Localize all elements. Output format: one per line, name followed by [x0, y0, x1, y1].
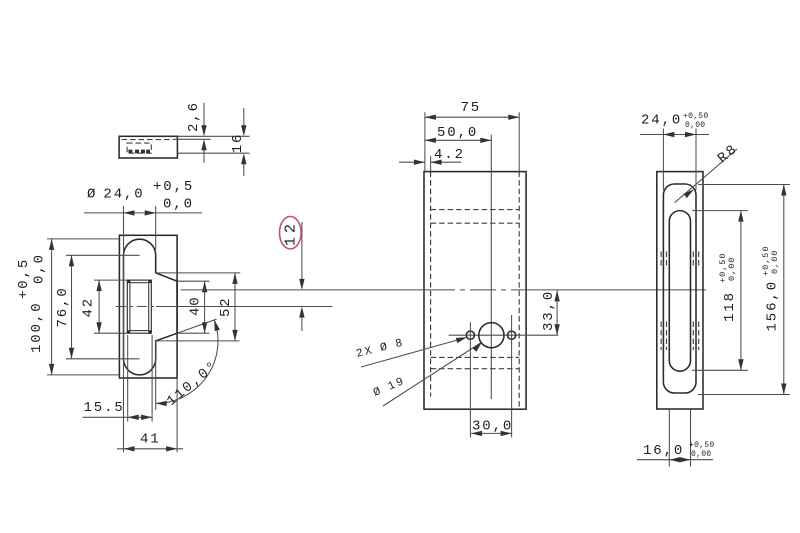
dimension 41 arrows: [124, 446, 135, 451]
dimension 75 extension left: [424, 112, 426, 171]
dimension 75 dim line: [425, 116, 519, 118]
dimension 100,0 extension top: [47, 238, 119, 240]
svg-text:16,0: 16,0: [643, 443, 684, 459]
angle 110 vertical extension line: [155, 341, 157, 410]
dimension 118 arrows: [738, 211, 743, 222]
small view hidden square 3: [141, 150, 145, 154]
svg-text:24,0: 24,0: [641, 113, 682, 129]
svg-text:50,0: 50,0: [437, 125, 478, 141]
dimension 30,0 extension left: [469, 322, 471, 438]
middle plate outline: [424, 172, 526, 410]
svg-text:12: 12: [283, 220, 300, 246]
leader 2X Ø8 arrow: [456, 337, 467, 343]
small view top surface extension line: [177, 135, 249, 137]
dimension 24,0 arrows: [663, 132, 674, 137]
small view hidden square 2: [135, 150, 139, 154]
dimension 42 extension top: [94, 279, 127, 281]
dimension Ø24 dim line: [84, 212, 202, 214]
dimension 16 leader line: [243, 108, 245, 132]
dimension 40 extension top: [177, 280, 209, 282]
dimension 52 extension bottom: [156, 340, 240, 342]
dimension 16 lower extension line: [177, 152, 249, 154]
dimension 4.2 dim line left: [399, 161, 425, 163]
angle 110 arc: [156, 320, 218, 404]
dimension 156,0 arrows: [781, 185, 786, 196]
inner rectangle corner dot bottom-right: [148, 330, 151, 333]
dimension 16,0 dim line: [637, 459, 713, 461]
dimension 76,0 arrows: [69, 255, 74, 266]
dimension 156,0 extension top: [698, 184, 790, 186]
front plate outline: [119, 235, 177, 378]
svg-text:0,00: 0,00: [727, 257, 737, 281]
dimension 42 arrows: [96, 280, 101, 291]
svg-text:0,00: 0,00: [691, 450, 711, 459]
svg-text:42: 42: [81, 297, 97, 318]
svg-text:+0,5: +0,5: [153, 179, 194, 195]
dimension 41 extension right: [176, 378, 178, 452]
dimension 76,0 dim line: [71, 255, 73, 358]
small view hidden square 4: [146, 150, 150, 154]
middle hidden pocket bottom line 2: [431, 368, 520, 370]
dimension 76,0 extension bottom: [66, 358, 140, 360]
small view hidden top line dashed: [122, 139, 174, 141]
dimension Ø24 extension line left (continues to 41 dim): [123, 206, 125, 452]
big hole Ø19: [479, 323, 504, 348]
middle hidden line 4.2: [430, 172, 432, 397]
main horizontal centerline dashed part: [116, 306, 156, 308]
dimension 30,0 arrows: [471, 431, 482, 436]
dimension 4.2 extension: [430, 156, 432, 171]
dimension 30,0 extension right: [511, 315, 513, 438]
dimension 15.5 arrows: [128, 415, 139, 420]
svg-text:Ø 24,0: Ø 24,0: [87, 187, 145, 203]
small hole right Ø8: [508, 331, 516, 339]
svg-text:33,0: 33,0: [541, 290, 557, 331]
inner rectangle corner dot top-right: [148, 280, 151, 283]
right U slot stadium: [669, 211, 690, 372]
dimension 118 extension bottom: [692, 369, 748, 371]
R8 leader line: [675, 149, 737, 203]
dimension 41 dim line: [117, 448, 183, 450]
right hidden band lower: [661, 322, 699, 351]
small view body outline: [119, 136, 177, 158]
middle inner wall line solid top (75 extension): [518, 112, 520, 171]
front boss outline: stadium with chamfered tab: [124, 239, 178, 375]
dimension 42 dim line: [98, 280, 100, 333]
dimension 12 leader line: [301, 222, 303, 285]
R8 arrow: [684, 189, 694, 198]
dimension 118 dim line: [740, 211, 742, 371]
dimension 16,0 arrows: [669, 457, 680, 462]
middle hidden pocket top line 2: [431, 222, 520, 224]
dimension 40 extension bottom: [177, 332, 209, 334]
dimension 33,0 arrows: [554, 290, 559, 301]
dimension 50,0 arrows: [425, 138, 436, 143]
leader 2X Ø8 line: [361, 338, 466, 367]
dimension 24,0 extension right: [695, 129, 697, 191]
svg-text:118: 118: [722, 291, 738, 322]
dimension 15.5 extension right: [151, 335, 153, 422]
svg-text:+0,5: +0,5: [16, 258, 32, 299]
right recess rounded rect: [663, 184, 696, 393]
dimension 50,0 dim line: [425, 139, 491, 141]
svg-text:41: 41: [140, 432, 161, 448]
dimension 12 arrows: [299, 279, 304, 290]
dimension 52 extension top: [156, 272, 241, 274]
small view hidden surface line (2,6 offset): [174, 138, 211, 140]
hole pattern horizontal centerline: [449, 334, 559, 336]
dimension 118 extension top: [692, 210, 748, 212]
small hole left Ø8: [466, 331, 474, 339]
right outer outline: [657, 172, 703, 409]
inner rectangle outer border: [127, 280, 151, 333]
leader Ø19 arrow: [473, 342, 483, 352]
svg-text:0,0: 0,0: [163, 197, 194, 213]
dimension 76,0 extension top: [66, 254, 140, 256]
balloon red ellipse: [280, 216, 302, 249]
offset centerline y290 across drawing: [181, 289, 429, 291]
angle 110 arrow upper: [214, 320, 220, 331]
inner rectangle corner dot top-left: [127, 280, 130, 283]
dimension 52 arrows: [232, 273, 237, 284]
dimension 24,0 dim line: [640, 134, 709, 136]
svg-text:76,0: 76,0: [55, 286, 71, 327]
middle hidden pocket bottom line 1: [431, 356, 520, 358]
dimension 4.2 arrows: [414, 160, 425, 165]
main horizontal centerline solid part: [156, 306, 333, 308]
dimension 156,0 extension bottom: [698, 394, 790, 396]
inner rectangle corner dot bottom-left: [127, 330, 130, 333]
dimension 15.5 extension left: [127, 335, 129, 422]
svg-text:2,6: 2,6: [186, 101, 202, 132]
dimension 2,6 leader line: [203, 103, 205, 132]
dimension 40 arrows: [202, 281, 207, 292]
dimension 24,0 extension left: [662, 129, 664, 191]
dimension 16 arrows: [241, 125, 246, 136]
right hidden band upper left: [661, 252, 699, 269]
svg-text:4.2: 4.2: [434, 147, 465, 163]
dimension 16,0 extension right: [690, 409, 692, 467]
svg-text:75: 75: [461, 100, 482, 116]
bottom chamfer extension line for angle dim: [177, 319, 216, 333]
dimension 42 extension bottom: [94, 332, 127, 334]
middle hidden pocket top line 1: [431, 209, 520, 211]
dimension 16,0 extension left: [668, 409, 670, 467]
middle inner wall hidden line: [518, 172, 520, 410]
svg-text:156,0: 156,0: [765, 280, 781, 332]
svg-text:15.5: 15.5: [84, 400, 125, 416]
svg-text:+0,50: +0,50: [689, 441, 715, 450]
svg-text:0,00: 0,00: [685, 121, 705, 130]
small view hidden square 1: [128, 150, 132, 154]
dimension 100,0 arrows: [49, 239, 54, 250]
dimension 156,0 dim line: [783, 185, 785, 395]
dimension 30,0 dim line: [471, 432, 512, 434]
svg-text:40: 40: [188, 295, 204, 316]
dimension 52 dim line: [234, 273, 236, 341]
svg-text:16: 16: [230, 133, 246, 154]
svg-text:52: 52: [218, 296, 234, 317]
dimension 33,0 dim line: [556, 290, 558, 335]
dimension 75 arrows: [425, 115, 436, 120]
dimension Ø24 arrows: [124, 210, 135, 215]
angle 110 arrow lower: [156, 401, 167, 406]
small view hidden pocket rectangle dashed: [127, 143, 151, 153]
dimension 40 dim line: [204, 281, 206, 333]
leader Ø19 line: [383, 343, 481, 406]
dimension 2,6 arrows: [201, 125, 206, 136]
svg-text:100,0: 100,0: [29, 301, 45, 353]
svg-text:0,00: 0,00: [770, 250, 780, 274]
dimension 15.5 dim line: [83, 416, 153, 418]
svg-text:+0,50: +0,50: [683, 112, 709, 121]
dimension 100,0 dim line: [51, 239, 53, 375]
dimension 100,0 extension bottom: [47, 374, 119, 376]
hole axis vertical line: [490, 135, 492, 399]
dimension Ø24 extension line right: [155, 206, 157, 250]
svg-text:0,0: 0,0: [32, 253, 48, 284]
dimension 4.2 dim line right: [431, 161, 461, 163]
svg-text:30,0: 30,0: [472, 419, 513, 435]
inner rectangle inner border: [130, 283, 149, 331]
